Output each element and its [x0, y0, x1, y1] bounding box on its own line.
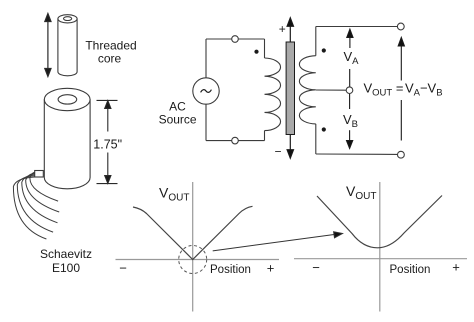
svg-text:+: +: [279, 22, 286, 36]
svg-text:−: −: [274, 144, 281, 158]
zoom arrow to right graph: [213, 232, 343, 251]
svg-text:E100: E100: [52, 261, 80, 275]
wire 5: [13, 177, 46, 239]
right graph axes: [294, 182, 467, 312]
svg-text:1.75": 1.75": [93, 137, 122, 151]
svg-text:Threaded: Threaded: [85, 39, 136, 53]
secondary wires: [316, 27, 398, 155]
secondary winding: [299, 56, 315, 124]
svg-text:−: −: [312, 260, 320, 275]
connector box: [35, 171, 44, 178]
wire 2: [26, 173, 60, 212]
center tap terminal: [346, 87, 353, 94]
VA arrow: [347, 29, 353, 86]
lead wires: [13, 172, 59, 239]
core bar: [286, 42, 294, 135]
primary phase dot: [254, 50, 258, 54]
wire 4: [17, 176, 53, 232]
svg-text:VB: VB: [343, 112, 358, 130]
core motion arrow: [287, 18, 293, 158]
svg-text:Source: Source: [159, 113, 197, 127]
wire 1: [30, 172, 58, 201]
VOUT measurement arrow: [398, 38, 404, 141]
threaded core cylinder: [58, 15, 77, 76]
VB arrow: [347, 94, 353, 148]
svg-text:VOUT: VOUT: [346, 183, 376, 202]
dimension 1.75": [97, 100, 118, 183]
LVDT body cylinder: [44, 88, 90, 189]
left graph axes: [116, 182, 280, 312]
svg-text:core: core: [98, 52, 122, 66]
output terminal bottom: [398, 151, 405, 158]
secondary phase dot top: [322, 48, 326, 52]
dashed circle at origin: [179, 246, 207, 274]
primary winding: [265, 58, 281, 131]
output terminal top: [397, 23, 404, 30]
core travel double arrow: [45, 14, 51, 77]
svg-text:+: +: [452, 260, 460, 275]
wire 3: [22, 175, 58, 223]
svg-text:Position: Position: [390, 264, 431, 276]
input terminal bottom: [232, 137, 239, 144]
svg-text:AC: AC: [169, 100, 186, 114]
svg-text:VA: VA: [344, 49, 360, 67]
right U curve: [317, 196, 442, 248]
AC source circle: [193, 78, 219, 104]
svg-text:VOUT =VA−VB: VOUT =VA−VB: [364, 81, 443, 99]
svg-text:Position: Position: [210, 264, 251, 276]
svg-text:−: −: [119, 261, 127, 276]
input terminal top: [232, 36, 239, 43]
primary loop wires: [206, 39, 265, 141]
svg-text:Schaevitz: Schaevitz: [40, 247, 92, 261]
svg-text:VOUT: VOUT: [159, 184, 189, 203]
left V curve: [133, 206, 253, 259]
center tap: [316, 89, 346, 91]
svg-text:+: +: [267, 261, 275, 276]
secondary phase dot bottom: [322, 127, 326, 131]
